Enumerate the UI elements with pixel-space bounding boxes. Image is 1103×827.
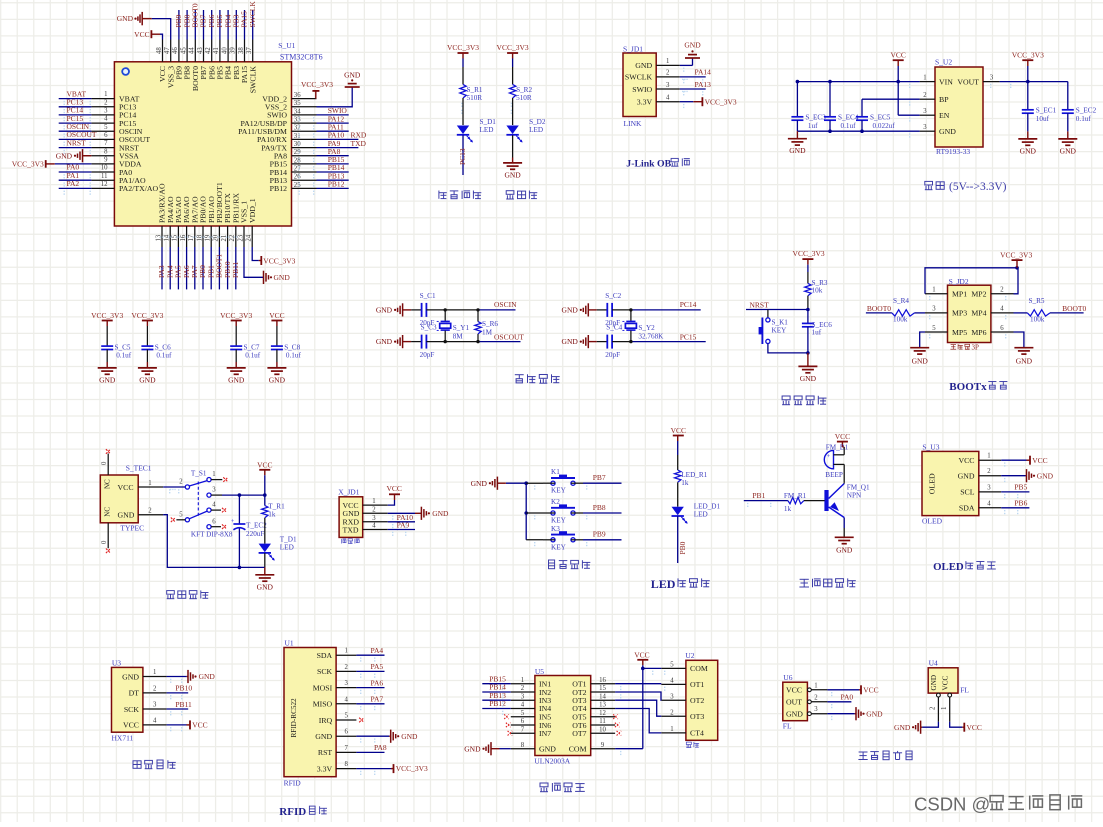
svg-text:5: 5 [179,511,183,518]
svg-text:0.022uf: 0.022uf [873,122,896,130]
svg-text:PA4: PA4 [371,646,384,655]
svg-text:CT4: CT4 [690,729,704,738]
svg-text:LED: LED [694,510,708,518]
svg-text:2: 2 [814,694,818,701]
svg-text:11: 11 [101,173,108,180]
svg-text:3: 3 [987,484,991,491]
svg-text:1: 1 [212,471,215,478]
svg-text:SWCLK: SWCLK [625,73,653,82]
svg-text:S_U2: S_U2 [935,58,952,67]
svg-text:PA13: PA13 [695,80,712,89]
svg-text:VCC: VCC [863,685,878,694]
svg-text:X_JD1: X_JD1 [338,488,360,497]
svg-text:VCC: VCC [958,456,974,465]
svg-text:0: 0 [101,461,108,465]
svg-text:2: 2 [104,99,108,106]
svg-text:GND: GND [464,744,481,753]
svg-text:U3: U3 [112,659,121,668]
svg-text:LINK: LINK [624,119,642,128]
svg-text:32: 32 [294,125,301,132]
svg-text:S_C4: S_C4 [606,324,622,332]
svg-text:13: 13 [155,234,162,241]
svg-text:16: 16 [180,234,187,241]
svg-text:RT9193-33: RT9193-33 [936,147,970,156]
svg-text:GND: GND [786,710,803,719]
svg-text:VCC_3V3: VCC_3V3 [301,80,333,89]
svg-text:PC14: PC14 [680,300,697,309]
svg-text:PA8: PA8 [374,743,387,752]
svg-text:BP: BP [939,95,949,104]
svg-text:S_D2: S_D2 [529,118,546,126]
svg-text:43: 43 [197,47,204,54]
svg-text:PB8: PB8 [593,503,606,512]
svg-text:MISO: MISO [313,700,333,709]
svg-text:PB5: PB5 [1014,483,1027,492]
svg-text:1: 1 [104,91,107,98]
svg-text:KEY: KEY [551,487,567,495]
svg-text:0.1uf: 0.1uf [156,352,172,360]
svg-text:1k: 1k [784,505,792,513]
svg-text:PB6: PB6 [1014,499,1027,508]
svg-text:39: 39 [230,47,237,54]
svg-text:4: 4 [212,502,216,509]
svg-text:5: 5 [521,710,525,717]
svg-text:S_EC4: S_EC4 [838,114,859,122]
svg-text:GND: GND [1037,471,1054,480]
svg-text:GND: GND [800,374,817,383]
svg-text:7: 7 [104,140,108,147]
svg-text:26: 26 [294,174,301,181]
svg-text:VCC: VCC [967,723,982,732]
svg-text:1: 1 [923,74,926,81]
svg-text:VCC_3V3: VCC_3V3 [705,97,737,106]
svg-text:36: 36 [294,92,301,99]
svg-text:S_R1: S_R1 [467,86,483,94]
svg-text:MP4: MP4 [971,309,986,318]
svg-text:VCC: VCC [257,460,272,469]
svg-text:4: 4 [666,95,670,102]
svg-text:13: 13 [599,702,606,709]
svg-text:4: 4 [670,678,674,685]
svg-text:S_R6: S_R6 [482,320,498,328]
svg-text:PA7: PA7 [371,695,384,704]
svg-text:2: 2 [923,92,927,99]
svg-text:3: 3 [990,74,994,81]
svg-text:19: 19 [205,234,212,241]
svg-text:510R: 510R [516,94,532,102]
svg-text:S_C5: S_C5 [115,344,131,352]
svg-text:3.3V: 3.3V [637,98,653,107]
svg-text:VCC: VCC [134,30,149,39]
svg-text:3: 3 [344,680,348,687]
svg-text:3: 3 [670,693,674,700]
svg-text:VCC: VCC [671,426,686,435]
svg-text:PA0: PA0 [841,692,854,701]
svg-text:0.1uf: 0.1uf [286,352,302,360]
svg-text:10: 10 [599,726,606,733]
svg-text:MP6: MP6 [971,328,986,337]
svg-text:25: 25 [294,182,301,189]
svg-text:0.1uf: 0.1uf [841,122,857,130]
svg-text:3P: 3P [972,343,980,351]
svg-text:VCC: VCC [1032,456,1047,465]
svg-text:VCC_3V3: VCC_3V3 [220,311,252,320]
svg-text:VCC: VCC [890,51,905,60]
svg-text:27: 27 [294,165,301,172]
svg-text:SWIO: SWIO [632,85,652,94]
svg-text:9: 9 [104,157,108,164]
svg-text:LED: LED [480,126,494,134]
svg-text:J-Link OB: J-Link OB [626,159,671,170]
svg-text:3: 3 [666,82,670,89]
svg-text:U1: U1 [285,639,294,648]
svg-text:1: 1 [932,287,935,294]
svg-text:PB12: PB12 [489,699,506,708]
svg-text:VCC_3V3: VCC_3V3 [396,764,428,773]
svg-text:44: 44 [189,47,196,54]
svg-text:29: 29 [294,149,301,156]
svg-text:5: 5 [670,662,674,669]
svg-text:2: 2 [344,664,348,671]
svg-text:1: 1 [148,480,151,487]
svg-text:VCC: VCC [786,686,802,695]
svg-text:T_R1: T_R1 [268,503,285,511]
svg-text:34: 34 [294,108,301,115]
svg-text:GND: GND [930,675,938,691]
svg-text:10: 10 [101,165,108,172]
svg-text:GND: GND [562,337,579,346]
svg-text:VCC_3V3: VCC_3V3 [131,311,163,320]
svg-text:U2: U2 [685,651,694,660]
svg-text:T_D1: T_D1 [280,536,297,544]
svg-text:LED: LED [529,126,543,134]
svg-text:TXD: TXD [343,525,359,534]
svg-text:12: 12 [599,710,606,717]
svg-text:VOUT: VOUT [957,77,979,86]
svg-text:1: 1 [521,677,524,684]
svg-text:NPN: NPN [847,492,862,500]
svg-text:PB0: PB0 [678,541,687,554]
svg-text:T_S1: T_S1 [191,470,207,478]
svg-text:EN: EN [939,111,950,120]
svg-text:2: 2 [372,506,376,513]
svg-text:S_C2: S_C2 [605,292,621,300]
svg-text:GND: GND [939,127,956,136]
svg-text:VCC_3V3: VCC_3V3 [447,43,479,52]
svg-text:OT1: OT1 [690,680,704,689]
svg-text:FM_R1: FM_R1 [784,492,807,500]
svg-text:OLED: OLED [922,517,943,526]
svg-text:15: 15 [172,234,179,241]
svg-text:38: 38 [238,47,245,54]
svg-text:12: 12 [101,181,108,188]
svg-text:GND: GND [344,71,361,80]
svg-text:S_JD2: S_JD2 [949,277,969,286]
svg-text:20pF: 20pF [420,351,435,359]
svg-text:GND: GND [635,61,652,70]
svg-text:6: 6 [1000,325,1004,332]
svg-text:1k: 1k [268,510,276,518]
svg-text:FM_B1: FM_B1 [826,444,849,452]
svg-text:5: 5 [932,325,936,332]
svg-text:LED: LED [651,577,676,591]
svg-text:8M: 8M [453,333,464,341]
svg-text:OLED: OLED [928,473,937,494]
svg-text:PA9: PA9 [397,521,410,530]
svg-text:220uF: 220uF [246,530,264,538]
svg-text:1: 1 [666,58,669,65]
svg-text:STM32C8T6: STM32C8T6 [280,53,323,62]
svg-text:10uf: 10uf [1036,115,1050,123]
svg-text:VIN: VIN [939,77,953,86]
svg-text:4: 4 [521,702,525,709]
svg-text:1: 1 [987,453,990,460]
svg-text:U4: U4 [929,659,938,668]
svg-text:23: 23 [237,234,244,241]
svg-text:46: 46 [172,47,179,54]
svg-text:16: 16 [599,677,606,684]
svg-text:S_EC6: S_EC6 [812,321,833,329]
svg-text:S_EC1: S_EC1 [1036,107,1057,115]
svg-text:1M: 1M [482,329,493,337]
svg-text:GND: GND [269,375,286,384]
svg-text:OSCOUT: OSCOUT [494,333,524,342]
svg-text:2: 2 [666,70,670,77]
svg-text:2: 2 [987,468,991,475]
svg-text:VCC_3V3: VCC_3V3 [1000,250,1032,259]
svg-text:1: 1 [941,707,948,710]
svg-text:LED: LED [280,543,294,551]
svg-text:S_JD1: S_JD1 [623,45,643,54]
svg-text:1: 1 [344,648,347,655]
svg-text:VDD_1: VDD_1 [248,198,257,223]
svg-text:BOOTx: BOOTx [949,381,987,393]
svg-text:PC13: PC13 [458,148,467,165]
svg-text:2: 2 [179,479,183,486]
svg-text:11: 11 [599,718,606,725]
svg-text:VCC: VCC [386,484,401,493]
svg-text:GND: GND [199,672,216,681]
svg-text:VCC_3V3: VCC_3V3 [793,249,825,258]
svg-text:45: 45 [180,47,187,54]
svg-text:7: 7 [344,745,348,752]
svg-text:20pF: 20pF [605,351,620,359]
svg-text:3.3V: 3.3V [317,764,333,773]
svg-text:3: 3 [372,515,376,522]
svg-text:RST: RST [318,748,333,757]
svg-text:NC: NC [104,507,112,517]
svg-text:GND: GND [376,306,393,315]
svg-text:22: 22 [229,234,236,241]
svg-text:S_R5: S_R5 [1029,297,1045,305]
svg-text:GND: GND [684,41,701,50]
svg-text:0: 0 [101,540,108,544]
svg-text:1: 1 [670,726,673,733]
svg-text:3: 3 [923,124,927,131]
svg-text:K1: K1 [551,468,560,476]
svg-text:S_R4: S_R4 [893,297,909,305]
svg-text:GND: GND [504,170,521,179]
svg-text:4: 4 [153,717,157,724]
svg-text:MP2: MP2 [971,290,986,299]
svg-text:PC15: PC15 [680,333,697,342]
svg-text:GND: GND [866,709,883,718]
svg-text:GND: GND [432,509,449,518]
svg-text:VCC: VCC [192,721,207,730]
svg-text:KFT DIP-8X8: KFT DIP-8X8 [191,531,233,539]
svg-text:4: 4 [372,523,376,530]
svg-text:GND: GND [471,479,488,488]
svg-text:7: 7 [521,726,525,733]
svg-text:+: + [827,453,831,460]
svg-text:TXD: TXD [351,139,367,148]
svg-text:SCL: SCL [960,488,975,497]
svg-text:10k: 10k [812,287,823,295]
svg-text:T_EC2: T_EC2 [246,522,267,530]
svg-text:U5: U5 [535,667,544,676]
svg-text:S_R3: S_R3 [812,279,828,287]
svg-text:OT2: OT2 [690,696,704,705]
svg-text:SCK: SCK [317,667,333,676]
svg-text:0.1uf: 0.1uf [116,352,132,360]
svg-text:RFID: RFID [279,806,306,818]
svg-text:6: 6 [344,729,348,736]
svg-text:4: 4 [987,500,991,507]
svg-text:IN7: IN7 [539,729,551,738]
svg-text:VCC_3V3: VCC_3V3 [497,43,529,52]
svg-text:4: 4 [1000,306,1004,313]
svg-text:8: 8 [521,742,525,749]
svg-text:0.1uf: 0.1uf [1076,115,1092,123]
svg-text:VCC_3V3: VCC_3V3 [263,256,295,265]
svg-text:1uf: 1uf [808,122,818,130]
svg-text:33: 33 [294,117,301,124]
svg-text:GND: GND [562,306,579,315]
svg-text:6: 6 [212,518,216,525]
svg-text:1uf: 1uf [812,329,822,337]
svg-text:GND: GND [1020,146,1037,155]
svg-text:24: 24 [246,234,253,241]
svg-text:LED_D1: LED_D1 [694,503,721,511]
svg-text:OT3: OT3 [690,712,704,721]
svg-text:S_Y1: S_Y1 [453,324,470,332]
svg-text:SDA: SDA [959,504,975,513]
svg-text:GND: GND [117,14,134,23]
svg-text:PA2/TX/AO: PA2/TX/AO [119,184,159,193]
svg-text:K2: K2 [551,498,560,506]
svg-text:PA5: PA5 [371,662,384,671]
svg-text:KEY: KEY [551,517,567,525]
svg-text:VCC: VCC [118,483,134,492]
svg-text:GND: GND [99,375,116,384]
svg-text:GND: GND [139,375,156,384]
svg-text:4: 4 [104,116,108,123]
svg-text:GND: GND [958,472,975,481]
svg-text:PB11: PB11 [231,261,240,278]
svg-text:NRST: NRST [67,138,87,147]
svg-text:GND: GND [539,745,556,754]
svg-text:GND: GND [1016,357,1033,366]
svg-text:S_Y2: S_Y2 [638,324,655,332]
svg-text:VCC_3V3: VCC_3V3 [91,311,123,320]
svg-text:35: 35 [294,100,301,107]
svg-text:BOOT0: BOOT0 [1062,304,1086,313]
svg-text:21: 21 [221,235,228,242]
svg-text:30: 30 [294,141,301,148]
svg-text:PB12: PB12 [270,184,287,193]
svg-text:FM_Q1: FM_Q1 [847,484,870,492]
svg-text:15: 15 [599,685,606,692]
svg-text:GND: GND [789,146,806,155]
svg-text:PB11: PB11 [175,700,192,709]
svg-text:NC: NC [104,479,112,489]
svg-text:PB1: PB1 [752,491,765,500]
svg-text:0.1uf: 0.1uf [245,352,261,360]
svg-text:48: 48 [156,47,163,54]
svg-text:S_C1: S_C1 [420,292,436,300]
svg-text:GND: GND [257,582,274,591]
svg-text:NRST: NRST [750,301,770,310]
svg-text:S_TEC1: S_TEC1 [126,464,152,473]
svg-text:GND: GND [56,151,73,160]
svg-text:GND: GND [228,375,245,384]
svg-text:VCC_3V3: VCC_3V3 [1012,51,1044,60]
svg-text:3: 3 [104,108,108,115]
svg-text:SWCLK: SWCLK [248,66,257,94]
svg-text:28: 28 [294,157,301,164]
svg-text:41: 41 [213,47,220,54]
svg-text:47: 47 [164,47,171,54]
svg-text:MP3: MP3 [952,309,967,318]
svg-text:2: 2 [1000,287,1004,294]
svg-text:S_C8: S_C8 [284,344,300,352]
svg-text:HX711: HX711 [112,734,134,743]
svg-text:SWCLK: SWCLK [248,1,257,28]
svg-text:GND: GND [118,511,135,520]
svg-text:3: 3 [923,108,927,115]
svg-text:40: 40 [221,47,228,54]
svg-text:COM: COM [569,745,587,754]
svg-text:3: 3 [153,702,157,709]
svg-text:2: 2 [153,685,157,692]
svg-text:PA2: PA2 [67,179,80,188]
svg-text:LED_R1: LED_R1 [681,471,707,479]
svg-text:14: 14 [599,693,606,700]
svg-text:S_EC5: S_EC5 [870,114,891,122]
svg-text:DT: DT [129,689,140,698]
svg-text:S_D1: S_D1 [480,118,497,126]
svg-text:SCK: SCK [124,705,140,714]
svg-text:20: 20 [213,234,220,241]
svg-text:5: 5 [344,713,348,720]
svg-text:S_C6: S_C6 [155,344,171,352]
svg-text:5: 5 [104,124,108,131]
svg-text:42: 42 [205,47,212,54]
svg-text:14: 14 [164,234,171,241]
svg-text:S_C7: S_C7 [244,344,260,352]
svg-text:S_U1: S_U1 [278,41,295,50]
svg-text:2: 2 [148,508,152,515]
svg-text:17: 17 [188,234,195,241]
svg-text:S_EC2: S_EC2 [1076,107,1097,115]
svg-text:3: 3 [814,706,818,713]
svg-text:KEY: KEY [772,327,788,335]
svg-text:VCC: VCC [634,651,649,660]
svg-text:100k: 100k [1030,316,1045,324]
svg-text:IRQ: IRQ [319,716,333,725]
svg-text:100k: 100k [893,316,908,324]
svg-text:GND: GND [274,273,291,282]
